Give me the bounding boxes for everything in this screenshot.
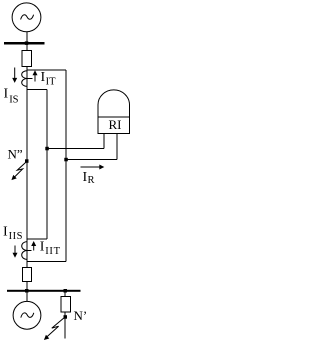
arrow I_IS (primary current, down) bbox=[12, 68, 17, 83]
node N' (fault dot on feeder) bbox=[64, 315, 68, 319]
fault arrow N'' (lightning) bbox=[10, 161, 28, 182]
junction dot busbar B / feeder bbox=[64, 289, 68, 293]
node N'' (fault dot on line) bbox=[25, 159, 29, 163]
arrow I_IIT (secondary current, up) bbox=[31, 241, 36, 251]
junction dot busbar A / line bbox=[25, 41, 29, 45]
feeder line below box bbox=[64, 312, 66, 339]
svg-text:N’: N’ bbox=[74, 308, 88, 323]
label I_IT bbox=[41, 70, 57, 87]
svg-text:RI: RI bbox=[109, 117, 122, 132]
arrow I_IT (secondary current, up) bbox=[33, 70, 38, 81]
generator G2 (bottom AC source circle) bbox=[13, 301, 41, 329]
pilot wire A (left secondary conductor) bbox=[46, 90, 48, 240]
current transformer TA1 (top CT winding arcs) bbox=[22, 71, 28, 87]
breaker Q2 (bottom box) bbox=[23, 268, 32, 282]
fault arrow N' (lightning) bbox=[42, 317, 65, 342]
svg-text:IIS: IIS bbox=[9, 231, 23, 242]
wire tap TA2 upper to pilot wire A bbox=[27, 238, 47, 240]
wire pilot B to relay bbox=[66, 159, 117, 161]
junction dot busbar B / line bbox=[25, 289, 29, 293]
wire pilot A to relay bbox=[47, 148, 104, 150]
svg-text:N”: N” bbox=[8, 147, 23, 162]
svg-text:IS: IS bbox=[9, 94, 18, 105]
wire busbar A to breaker Q1 bbox=[26, 44, 28, 51]
protected line W (main vertical line) bbox=[26, 66, 28, 267]
svg-text:IT: IT bbox=[46, 76, 56, 87]
relay left lead bbox=[103, 134, 105, 149]
breaker Q1 (top box) bbox=[22, 50, 31, 66]
pilot wire B (right secondary conductor) bbox=[65, 70, 67, 262]
svg-text:I: I bbox=[3, 225, 8, 240]
wire breaker Q2 to busbar B bbox=[26, 282, 28, 291]
junction dot pilot B bbox=[64, 158, 68, 162]
svg-text:IIT: IIT bbox=[45, 246, 61, 257]
arrow I_R (relay current, right) bbox=[81, 165, 105, 170]
busbar B (bottom bus) bbox=[7, 290, 81, 292]
relay RI (body box) bbox=[98, 117, 130, 134]
label I_R bbox=[83, 170, 95, 186]
wire tap TA1 upper to pilot wire B bbox=[27, 69, 66, 71]
junction dot pilot A bbox=[45, 147, 49, 151]
wire tap TA2 lower to pilot wire B bbox=[27, 261, 66, 263]
wire busbar B to feeder box bbox=[64, 292, 66, 297]
svg-text:I: I bbox=[40, 240, 45, 255]
wire tap TA1 lower to pilot wire A bbox=[27, 89, 47, 91]
label I_IS bbox=[4, 87, 19, 106]
busbar A (top bus) bbox=[4, 42, 45, 45]
wire busbar B to generator G2 bbox=[26, 292, 28, 302]
current transformer TA2 (bottom CT winding arcs) bbox=[22, 242, 28, 260]
relay RI (dome) bbox=[98, 90, 130, 117]
label I_IIS bbox=[3, 225, 23, 242]
svg-text:I: I bbox=[4, 87, 9, 102]
arrow I_IIS (primary current, down) bbox=[13, 246, 18, 258]
svg-text:R: R bbox=[88, 175, 95, 186]
label I_IIT bbox=[40, 240, 61, 258]
relay right lead bbox=[116, 134, 118, 160]
generator G1 (top AC source circle) bbox=[12, 3, 41, 32]
wire generator G1 to busbar A bbox=[26, 32, 28, 43]
feeder box (bottom right) bbox=[61, 297, 71, 313]
